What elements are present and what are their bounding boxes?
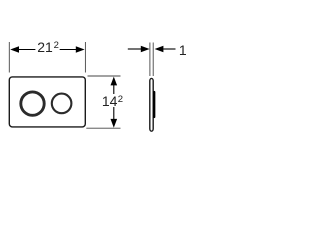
width dimension left arrowhead	[10, 46, 19, 53]
width dimension left extension line	[8, 42, 10, 73]
width dimension line left segment	[17, 49, 35, 51]
height dimension bottom arrowhead	[111, 119, 118, 128]
right flush button ring	[52, 94, 72, 114]
thickness dimension left arrowhead	[141, 46, 150, 53]
height dimension line lower segment	[113, 107, 115, 119]
width dimension right extension line	[84, 42, 86, 73]
thickness dimension left tail line	[128, 48, 141, 50]
width dimension line right segment	[60, 49, 78, 51]
thickness dimension left extension line	[149, 43, 151, 77]
width dimension right arrowhead	[76, 46, 85, 53]
thickness dimension right tail line	[163, 48, 175, 50]
height dimension bottom extension line	[86, 127, 120, 129]
height dimension top extension line	[88, 75, 121, 77]
height dimension top arrowhead	[111, 77, 118, 86]
svg-text:1: 1	[179, 42, 187, 58]
side profile button bulge	[153, 92, 155, 117]
flush plate front view outline	[9, 77, 85, 127]
height dimension line upper segment	[113, 84, 115, 94]
side profile outline	[150, 78, 153, 131]
left flush button ring	[21, 92, 44, 115]
thickness dimension right extension line	[152, 43, 154, 77]
thickness dimension right arrowhead	[155, 46, 164, 53]
